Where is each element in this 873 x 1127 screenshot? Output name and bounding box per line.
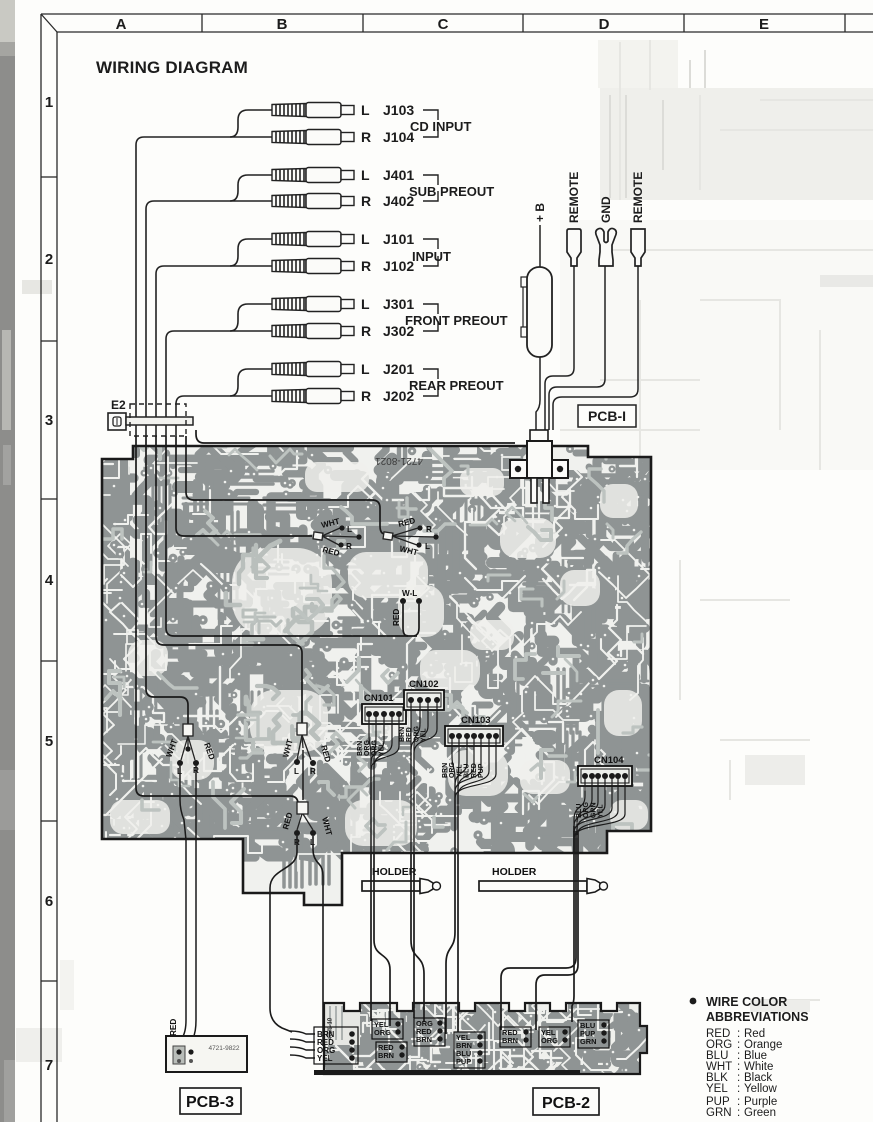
svg-text:1: 1 [45,94,53,111]
node W-L junction [400,598,406,604]
bracket lines J201/J202 [423,369,438,396]
PCB-2 pad group [454,1032,485,1068]
svg-text:PCB-I: PCB-I [588,408,626,424]
svg-text:FRONT PREOUT: FRONT PREOUT [405,313,508,328]
svg-text:J103: J103 [383,102,414,118]
svg-text:CD INPUT: CD INPUT [410,119,471,134]
svg-text:L: L [361,361,370,377]
RCA jack J201 [272,362,354,377]
svg-text:ORG: ORG [413,726,420,743]
label J101 [361,231,414,274]
svg-text:J201: J201 [383,361,414,377]
svg-text:L: L [361,296,370,312]
bracket lines J401/J402 [423,175,438,201]
svg-text:L: L [347,525,352,534]
svg-text:ORG: ORG [374,1028,391,1037]
svg-text:ORG: ORG [583,802,590,819]
svg-text:PCB-2: PCB-2 [542,1095,590,1112]
svg-text:RED: RED [392,609,401,626]
svg-text:C: C [438,16,449,33]
svg-text:E2: E2 [111,398,126,412]
svg-text:WIRING DIAGRAM: WIRING DIAGRAM [96,58,248,77]
svg-text:J401: J401 [383,167,414,183]
svg-text:BRN: BRN [416,1035,432,1044]
junction CN L/R (WHT/RED) [313,528,359,545]
svg-text:W-L: W-L [402,589,417,598]
svg-text:CN101: CN101 [364,693,394,704]
svg-text:RED: RED [471,763,478,778]
svg-text:ORG: ORG [371,740,378,757]
svg-text:R: R [346,542,352,551]
junction CN R/L (RED/WHT) [383,528,436,545]
bracket lines J103/J104 [423,110,438,137]
RCA jack J301 [272,297,354,312]
svg-text:GRN: GRN [590,802,597,818]
svg-text:J101: J101 [383,231,414,247]
label J301 [361,296,414,339]
PCB-3 board [166,1036,247,1072]
svg-text:YEL: YEL [421,728,428,742]
label J201 [361,361,414,404]
svg-text:WIRE COLOR: WIRE COLOR [706,995,787,1009]
PCB-2 label box [533,1088,599,1115]
RCA jack J101 [272,232,354,247]
wires PCB to PCB-2 [371,831,578,1034]
svg-text:CN102: CN102 [409,679,439,690]
PCB-2 left side wires BRN/RED/ORG/YEL [290,1031,315,1058]
svg-text:YEL: YEL [317,1054,333,1063]
wire CN104 exit [573,826,575,853]
PCB-1 label box [578,405,636,427]
scan edge strip [0,0,15,1122]
svg-text:4721-8021: 4721-8021 [375,455,423,466]
svg-text:ABBREVIATIONS: ABBREVIATIONS [706,1010,809,1024]
svg-text:YEL: YEL [598,804,605,818]
svg-text:R: R [361,193,371,209]
svg-text:L: L [425,542,430,551]
svg-text:GRN: GRN [706,1107,732,1119]
label J401 [361,167,414,209]
svg-text:RED: RED [169,1019,178,1036]
svg-text:BRN: BRN [442,763,449,778]
svg-text:HOLDER: HOLDER [492,866,537,878]
svg-text:ORG: ORG [541,1036,558,1045]
fuse capsule +B [521,225,552,430]
svg-text:REMOTE: REMOTE [567,172,581,223]
svg-text:+ B: + B [533,203,547,222]
svg-text:PUP: PUP [478,763,485,778]
svg-text:BRN: BRN [399,727,406,742]
svg-text:PCB-3: PCB-3 [186,1094,234,1111]
bracket lines J301/J302 [423,304,438,331]
svg-text:BLU: BLU [576,804,583,818]
svg-text:Yellow: Yellow [744,1083,778,1095]
svg-text:GRN: GRN [580,1037,596,1046]
svg-text:ORG: ORG [449,762,456,779]
svg-text:GND: GND [599,196,613,223]
wire pair J101/J102 to bundle [156,239,272,436]
svg-text:BRN: BRN [378,1051,394,1060]
svg-text:L: L [361,167,370,183]
PCB-2 pad group [578,1020,609,1048]
svg-text:D: D [599,16,610,33]
svg-text:INPUT: INPUT [412,249,451,264]
svg-text:J102: J102 [383,258,414,274]
wire pair to PCB-3 [180,766,196,1048]
svg-text:2: 2 [45,251,53,268]
svg-text:BLU: BLU [464,764,471,778]
spade terminal REMOTE 2 [631,229,645,266]
PCB-1 power connector [510,430,568,503]
svg-text:3: 3 [45,412,53,429]
svg-text:CN104: CN104 [594,755,624,766]
svg-text:SUB PREOUT: SUB PREOUT [409,184,494,199]
PCB-3 label box [180,1088,241,1114]
RCA jack J102 [272,259,354,274]
PCB-2 pad group [414,1018,445,1046]
svg-text:4721-9822: 4721-9822 [208,1045,239,1052]
PCB main board outline [102,446,651,905]
wire pair J201/J202 to bundle [176,369,272,436]
RCA jack J104 [272,130,354,145]
svg-text:PUP: PUP [456,1057,471,1066]
svg-text:R: R [426,525,432,534]
wires to PCB-2 left [270,836,323,1046]
svg-text:R: R [361,129,371,145]
wire color legend [690,995,809,1119]
svg-text:R: R [361,388,371,404]
RCA jack J401 [272,168,354,183]
svg-text:BRN: BRN [502,1036,518,1045]
svg-text:L: L [361,102,370,118]
svg-text:6: 6 [45,893,53,910]
bracket lines J101/J102 [423,239,438,266]
svg-text:R: R [310,767,316,776]
svg-text:YEL: YEL [379,742,386,756]
E2 cable clamp [108,398,193,436]
PCB-2 pad group [539,1027,570,1047]
svg-text:J301: J301 [383,296,414,312]
junction WHT-L/RED-R lower left [181,724,195,760]
svg-text:REAR PREOUT: REAR PREOUT [409,378,504,393]
svg-text:YEL: YEL [706,1083,728,1095]
svg-text:RED: RED [406,727,413,742]
fork terminal GND [596,228,617,266]
wire pair J401/J402 to bundle [146,175,272,436]
RCA jack J202 [272,389,354,404]
svg-text:REMOTE: REMOTE [631,172,645,223]
svg-text::: : [737,1083,740,1095]
svg-text::: : [737,1107,740,1119]
svg-text:5: 5 [45,733,53,750]
wire pair J103/J104 to bundle [136,110,272,436]
spade terminal REMOTE 1 [567,229,581,266]
RCA jack J302 [272,324,354,339]
PCB-2 pad group [372,1019,403,1039]
wire pair J301/J302 to bundle [166,304,272,436]
svg-text:ORG: ORG [364,740,371,757]
junction RED/WHT fork lower [297,802,313,830]
svg-text:4: 4 [45,572,54,589]
svg-text:E: E [759,16,769,33]
harness wires to PCB-1 connector [545,266,638,430]
svg-text:Green: Green [744,1107,776,1119]
wire bundle over PCB [136,430,515,806]
svg-text:YEL: YEL [456,764,463,778]
PCB-2 pad group [500,1027,531,1047]
svg-text:B: B [277,16,288,33]
PCB-2 pad group [376,1042,407,1062]
svg-text:CN103: CN103 [461,715,491,726]
label J103 [361,102,414,145]
RCA jack J103 [272,103,354,118]
svg-text:R: R [361,323,371,339]
svg-text:L: L [294,767,299,776]
wire to lower fork [302,750,304,800]
svg-text:7: 7 [45,1057,53,1074]
junction WHT/RED fork mid [297,723,311,760]
svg-text:R: R [361,258,371,274]
svg-text:HOLDER: HOLDER [372,866,417,878]
svg-text:L: L [361,231,370,247]
RCA jack J402 [272,194,354,209]
svg-text:A: A [116,16,127,33]
svg-text:BRN: BRN [357,741,364,756]
